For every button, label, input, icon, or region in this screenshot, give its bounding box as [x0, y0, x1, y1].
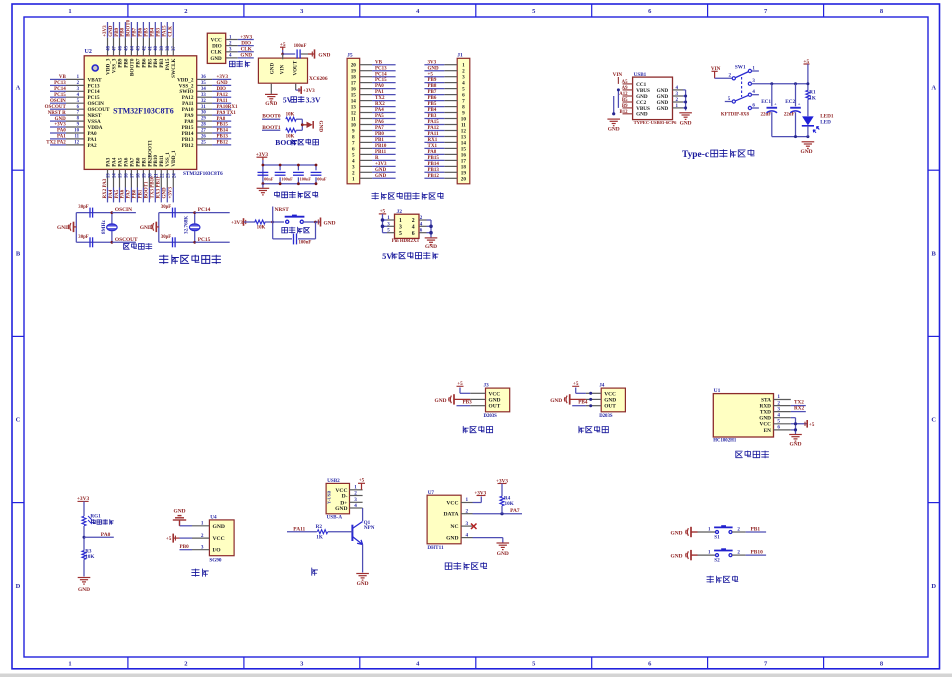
svg-text:4: 4	[466, 532, 469, 538]
svg-text:35: 35	[201, 81, 206, 86]
svg-text:PB3: PB3	[428, 114, 437, 119]
svg-text:PB14: PB14	[428, 162, 440, 167]
svg-text:D-: D-	[342, 494, 348, 500]
svg-text:PA1: PA1	[375, 90, 384, 95]
svg-text:PA1: PA1	[57, 135, 66, 140]
svg-text:11: 11	[74, 135, 79, 140]
svg-text:GND: GND	[55, 117, 67, 122]
svg-text:1: 1	[777, 394, 780, 400]
svg-text:PA6: PA6	[375, 120, 384, 125]
svg-text:32.768K: 32.768K	[184, 216, 190, 234]
svg-text:+3V3: +3V3	[54, 123, 66, 128]
svg-text:+5: +5	[809, 422, 815, 428]
svg-text:GND: GND	[57, 225, 69, 231]
svg-text:PA8: PA8	[428, 150, 437, 155]
svg-text:PA10RX1: PA10RX1	[217, 105, 239, 110]
svg-text:5: 5	[399, 231, 402, 237]
svg-text:TYPEC-USB03-6CP6: TYPEC-USB03-6CP6	[634, 120, 678, 125]
svg-text:2: 2	[184, 661, 187, 668]
svg-text:NPN: NPN	[364, 525, 375, 531]
svg-text:EN: EN	[764, 428, 772, 434]
svg-text:PB15: PB15	[217, 123, 229, 128]
svg-text:10: 10	[74, 129, 79, 134]
svg-text:PA9 TX1: PA9 TX1	[217, 111, 237, 116]
svg-text:2: 2	[184, 8, 187, 15]
svg-text:1: 1	[201, 521, 204, 527]
svg-text:OSCIN: OSCIN	[115, 207, 132, 213]
svg-text:OUT: OUT	[604, 404, 616, 410]
svg-text:PA2: PA2	[88, 143, 98, 149]
svg-text:5: 5	[777, 419, 780, 425]
svg-text:GND: GND	[318, 121, 324, 133]
svg-text:PA12: PA12	[217, 93, 229, 98]
svg-text:PB1: PB1	[751, 526, 761, 532]
svg-text:3V3: 3V3	[428, 60, 437, 65]
svg-text:3: 3	[399, 224, 402, 230]
svg-text:+5: +5	[428, 72, 434, 77]
svg-text:PB13: PB13	[217, 135, 229, 140]
svg-text:CLK: CLK	[241, 47, 252, 53]
svg-text:STM32F103C8T6: STM32F103C8T6	[183, 171, 223, 177]
svg-text:PB1: PB1	[139, 189, 144, 198]
svg-text:OSCIN: OSCIN	[50, 99, 66, 104]
svg-text:NC: NC	[450, 524, 458, 530]
svg-text:A9: A9	[622, 86, 628, 91]
svg-text:XC6206: XC6206	[309, 76, 328, 82]
svg-text:GND: GND	[425, 244, 437, 250]
svg-text:PC15: PC15	[375, 78, 387, 83]
svg-text:45: 45	[124, 46, 129, 51]
svg-text:A: A	[931, 84, 936, 91]
svg-text:DHT11: DHT11	[427, 545, 444, 551]
svg-text:EC2: EC2	[785, 99, 795, 105]
svg-text:30pF: 30pF	[78, 235, 88, 240]
svg-text:GND: GND	[759, 416, 771, 422]
svg-text:TX2: TX2	[794, 400, 804, 406]
svg-text:VCC: VCC	[604, 391, 616, 397]
svg-text:PB12: PB12	[182, 143, 194, 149]
svg-text:GND: GND	[213, 524, 225, 530]
svg-text:10K: 10K	[286, 113, 295, 118]
svg-text:B12: B12	[620, 110, 629, 115]
svg-text:PA11: PA11	[217, 99, 229, 104]
svg-text:3: 3	[777, 406, 780, 412]
svg-text:12: 12	[74, 141, 79, 146]
svg-text:3: 3	[201, 544, 204, 550]
svg-text:GND: GND	[435, 398, 447, 404]
svg-text:NRST R: NRST R	[48, 111, 66, 116]
svg-text:PC14: PC14	[198, 207, 211, 213]
svg-text:+5: +5	[359, 478, 365, 484]
svg-text:PA7: PA7	[127, 189, 132, 198]
svg-text:B5: B5	[622, 98, 628, 103]
svg-text:34: 34	[201, 87, 206, 92]
svg-text:23: 23	[166, 173, 171, 178]
svg-text:STA: STA	[761, 397, 771, 403]
svg-text:GND: GND	[671, 553, 683, 559]
svg-text:GND: GND	[608, 127, 620, 133]
svg-text:30pF: 30pF	[78, 205, 88, 210]
svg-text:J1: J1	[457, 53, 463, 59]
svg-text:VOUT: VOUT	[293, 60, 299, 75]
svg-text:2: 2	[412, 218, 415, 224]
svg-text:46: 46	[118, 46, 123, 51]
svg-text:VIN: VIN	[613, 72, 623, 78]
svg-text:PA8: PA8	[217, 117, 226, 122]
svg-text:RX1: RX1	[428, 138, 438, 143]
svg-text:GND: GND	[550, 398, 562, 404]
svg-text:1: 1	[68, 8, 71, 15]
svg-text:VCC: VCC	[213, 536, 225, 542]
svg-text:LED: LED	[820, 120, 831, 126]
svg-text:PA15: PA15	[428, 120, 440, 125]
svg-text:VBUS: VBUS	[636, 88, 650, 94]
svg-text:48: 48	[106, 46, 111, 51]
svg-text:KFTDIP-8X8: KFTDIP-8X8	[721, 112, 750, 117]
svg-text:31: 31	[201, 105, 206, 110]
svg-text:Type-c: Type-c	[682, 150, 709, 160]
svg-text:U4: U4	[210, 514, 217, 520]
svg-text:PB11: PB11	[375, 150, 387, 155]
svg-text:GND: GND	[174, 509, 186, 515]
svg-text:37: 37	[172, 46, 177, 51]
svg-text:PA11: PA11	[293, 526, 305, 532]
svg-text:1: 1	[68, 661, 71, 668]
svg-text:4: 4	[354, 503, 357, 509]
svg-text:S2: S2	[714, 557, 720, 563]
svg-text:B9: B9	[622, 104, 628, 109]
svg-text:100nF: 100nF	[281, 177, 293, 182]
svg-text:RX2: RX2	[794, 406, 804, 412]
svg-text:R2: R2	[316, 524, 323, 530]
svg-text:GND: GND	[446, 536, 458, 542]
svg-text:20: 20	[461, 176, 467, 182]
svg-text:I/O: I/O	[213, 548, 222, 554]
svg-text:PB3: PB3	[463, 400, 473, 406]
svg-text:GND: GND	[657, 106, 669, 112]
svg-text:RX2: RX2	[375, 102, 385, 107]
svg-text:PC14: PC14	[54, 87, 66, 92]
svg-text:GND: GND	[335, 506, 347, 512]
svg-text:100nF: 100nF	[300, 177, 312, 182]
svg-text:PB7: PB7	[133, 27, 138, 36]
svg-text:+3V3: +3V3	[169, 187, 174, 199]
svg-text:30pF: 30pF	[161, 235, 171, 240]
svg-text:CLK: CLK	[169, 26, 174, 37]
svg-text:3: 3	[466, 521, 469, 527]
svg-text:27: 27	[201, 129, 206, 134]
svg-text:29: 29	[201, 117, 206, 122]
svg-text:PB4: PB4	[151, 27, 156, 36]
svg-text:A5: A5	[622, 80, 628, 85]
svg-text:PB4: PB4	[578, 400, 588, 406]
svg-text:PB9: PB9	[115, 27, 120, 36]
svg-text:PA7: PA7	[375, 126, 384, 131]
svg-text:+3V3: +3V3	[375, 162, 387, 167]
svg-text:GND: GND	[357, 581, 369, 587]
svg-text:44: 44	[130, 46, 135, 51]
svg-text:+3V3: +3V3	[240, 34, 252, 40]
svg-text:41: 41	[148, 46, 153, 51]
svg-text:VCC: VCC	[446, 501, 458, 507]
svg-text:+: +	[774, 102, 777, 107]
svg-text:GND: GND	[163, 187, 168, 199]
svg-text:100nF: 100nF	[294, 44, 307, 49]
svg-text:PA0: PA0	[57, 129, 66, 134]
svg-text:PB12: PB12	[217, 141, 229, 146]
svg-text:C: C	[931, 417, 936, 424]
svg-text:S1: S1	[714, 534, 720, 540]
svg-text:2: 2	[201, 533, 204, 539]
svg-text:100nF: 100nF	[299, 241, 312, 246]
svg-text:DIO: DIO	[217, 87, 227, 92]
svg-text:TX1: TX1	[428, 144, 438, 149]
svg-text:6: 6	[412, 231, 415, 237]
svg-text:PB15: PB15	[428, 156, 440, 161]
svg-text:2: 2	[466, 508, 469, 514]
svg-text:U2: U2	[85, 49, 92, 55]
svg-text:OSCOUT: OSCOUT	[45, 105, 67, 110]
svg-text:PA12: PA12	[428, 126, 440, 131]
svg-text:Y-USB: Y-USB	[327, 491, 332, 504]
svg-text:VCC: VCC	[760, 422, 772, 428]
svg-text:1: 1	[399, 218, 402, 224]
svg-text:PB0: PB0	[133, 189, 138, 198]
svg-text:+5: +5	[166, 536, 172, 542]
svg-text:PB10: PB10	[375, 144, 387, 149]
svg-text:16: 16	[125, 173, 130, 178]
svg-text:GND: GND	[210, 56, 222, 62]
svg-text:PA4: PA4	[109, 189, 114, 198]
svg-text:GND: GND	[324, 220, 336, 226]
svg-text:VCC: VCC	[489, 391, 501, 397]
svg-text:25: 25	[201, 141, 206, 146]
svg-text:EC1: EC1	[761, 99, 771, 105]
svg-text:GND: GND	[140, 225, 152, 231]
svg-text:PB6: PB6	[428, 96, 437, 101]
svg-text:4: 4	[412, 224, 415, 230]
svg-text:PB0: PB0	[180, 544, 190, 550]
svg-text:40: 40	[154, 46, 159, 51]
svg-text:STM32F103C8T6: STM32F103C8T6	[113, 106, 174, 115]
svg-text:RG1: RG1	[90, 514, 101, 520]
svg-text:PC15: PC15	[54, 93, 66, 98]
svg-text:J5: J5	[347, 53, 353, 59]
svg-text:PB0: PB0	[375, 132, 384, 137]
svg-text:NRST: NRST	[275, 207, 290, 213]
svg-text:00uF: 00uF	[317, 177, 327, 182]
svg-text:22uF: 22uF	[761, 112, 772, 117]
svg-text:1: 1	[466, 497, 469, 503]
svg-text:Pin HDR2X3: Pin HDR2X3	[392, 239, 420, 244]
svg-text:SWCLK: SWCLK	[171, 59, 177, 78]
svg-text:17: 17	[131, 173, 136, 178]
svg-text:10K: 10K	[505, 501, 514, 507]
svg-text:+3V3: +3V3	[231, 220, 243, 226]
svg-text:PC14: PC14	[375, 72, 387, 77]
svg-text:30pF: 30pF	[161, 205, 171, 210]
svg-text:PA6: PA6	[121, 189, 126, 198]
svg-text:PB7: PB7	[428, 90, 437, 95]
svg-text:D203S: D203S	[484, 414, 498, 419]
svg-text:RX2 PA3: RX2 PA3	[103, 178, 108, 198]
svg-text:10K: 10K	[85, 554, 94, 560]
svg-text:BOOT1: BOOT1	[145, 181, 150, 198]
svg-text:4: 4	[777, 412, 780, 418]
svg-text:PA0: PA0	[375, 84, 384, 89]
svg-text:GND: GND	[657, 88, 669, 94]
svg-text:CLK: CLK	[211, 50, 222, 56]
svg-text:22uF: 22uF	[784, 112, 795, 117]
svg-text:RX3 PB11: RX3 PB11	[157, 176, 162, 199]
svg-text:SW1: SW1	[735, 64, 746, 70]
svg-text:PC15: PC15	[198, 237, 211, 243]
svg-text:OSCOUT: OSCOUT	[115, 237, 138, 243]
svg-text:R: R	[375, 156, 379, 161]
svg-text:TX3 PB10: TX3 PB10	[151, 176, 156, 199]
svg-text:B: B	[16, 251, 21, 258]
svg-text:38: 38	[166, 46, 171, 51]
svg-text:PB8: PB8	[121, 27, 126, 36]
svg-text:6: 6	[777, 425, 780, 431]
svg-text:PB1: PB1	[375, 138, 384, 143]
svg-text:GND: GND	[497, 551, 509, 557]
svg-text:D203S: D203S	[599, 414, 613, 419]
svg-text:47: 47	[112, 46, 117, 51]
svg-text:VCC: VCC	[211, 37, 222, 43]
svg-text:PB4: PB4	[428, 108, 437, 113]
svg-text:GND: GND	[636, 112, 648, 118]
svg-text:8MHz: 8MHz	[101, 219, 107, 234]
svg-text:SG90: SG90	[209, 557, 222, 563]
svg-text:HC1802H1: HC1802H1	[713, 438, 737, 443]
svg-text:42: 42	[142, 46, 147, 51]
svg-text:13: 13	[107, 173, 112, 178]
svg-text:GND: GND	[109, 25, 114, 37]
svg-text:USB2: USB2	[327, 478, 340, 484]
svg-text:PB6: PB6	[139, 27, 144, 36]
svg-text:GND: GND	[428, 66, 440, 71]
svg-text:GND: GND	[318, 52, 330, 58]
svg-text:PB8: PB8	[428, 84, 437, 89]
svg-text:14: 14	[113, 173, 118, 178]
svg-text:VB: VB	[59, 75, 67, 80]
svg-text:PB9: PB9	[428, 78, 437, 83]
svg-text:PC13: PC13	[54, 81, 66, 86]
svg-text:GND: GND	[680, 121, 692, 127]
svg-text:PA11: PA11	[428, 132, 440, 137]
svg-text:GND: GND	[78, 587, 90, 593]
svg-text:1: 1	[352, 176, 355, 182]
svg-text:PB12: PB12	[428, 174, 440, 179]
svg-text:+3V3: +3V3	[103, 25, 108, 37]
svg-text:DATA: DATA	[443, 512, 458, 518]
svg-text:BOOT: BOOT	[275, 138, 297, 147]
svg-text:U7: U7	[428, 490, 435, 496]
svg-text:24: 24	[172, 173, 177, 178]
svg-text:PA7: PA7	[510, 508, 520, 514]
svg-text:PB13: PB13	[428, 168, 440, 173]
svg-text:1K: 1K	[316, 535, 323, 541]
svg-text:U1: U1	[714, 388, 721, 394]
svg-text:PA4: PA4	[375, 108, 384, 113]
svg-text:TX2 PA2: TX2 PA2	[46, 141, 66, 146]
svg-text:19: 19	[143, 173, 148, 178]
svg-text:GND: GND	[269, 63, 275, 75]
svg-text:3.3V: 3.3V	[306, 95, 321, 104]
svg-text:A: A	[16, 84, 21, 91]
svg-text:39: 39	[160, 46, 165, 51]
svg-text:J4: J4	[599, 383, 605, 389]
svg-text:PA15: PA15	[163, 25, 168, 37]
svg-text:TX2: TX2	[375, 96, 385, 101]
svg-text:32: 32	[201, 99, 206, 104]
svg-text:GND: GND	[265, 101, 277, 107]
svg-text:1K: 1K	[809, 95, 816, 101]
svg-text:GND: GND	[790, 442, 802, 448]
svg-text:PB5: PB5	[428, 102, 437, 107]
svg-text:PA5: PA5	[115, 189, 120, 198]
svg-text:D: D	[931, 583, 936, 590]
svg-text:TXD: TXD	[760, 410, 771, 416]
svg-text:A12: A12	[619, 92, 628, 97]
svg-text:D: D	[16, 583, 21, 590]
svg-text:GND: GND	[375, 174, 387, 179]
svg-text:15: 15	[119, 173, 124, 178]
svg-text:GND: GND	[375, 168, 387, 173]
svg-text:GND: GND	[604, 397, 616, 403]
svg-text:+3V3: +3V3	[303, 88, 315, 94]
svg-text:GND: GND	[801, 149, 813, 155]
svg-text:28: 28	[201, 123, 206, 128]
svg-text:BOOT0: BOOT0	[127, 19, 132, 36]
svg-text:PA0: PA0	[101, 532, 111, 538]
svg-text:PC13: PC13	[375, 66, 387, 71]
svg-text:GND: GND	[217, 81, 229, 86]
svg-text:LED1: LED1	[820, 113, 834, 119]
svg-text:J3: J3	[484, 383, 490, 389]
svg-text:OUT: OUT	[489, 404, 501, 410]
svg-text:43: 43	[136, 46, 141, 51]
svg-text:PB10: PB10	[751, 550, 764, 556]
svg-text:30: 30	[201, 111, 206, 116]
svg-text:VDD_1: VDD_1	[171, 150, 177, 167]
svg-text:2: 2	[354, 490, 357, 496]
svg-text:36: 36	[201, 75, 206, 80]
svg-text:5V: 5V	[382, 252, 392, 261]
svg-text:J2: J2	[397, 209, 403, 215]
svg-text:10K: 10K	[257, 226, 266, 231]
svg-text:18: 18	[137, 173, 142, 178]
svg-text:GND: GND	[671, 530, 683, 536]
svg-text:C: C	[16, 417, 21, 424]
svg-text:VIN: VIN	[280, 65, 286, 75]
svg-text:USB1: USB1	[634, 72, 647, 78]
svg-text:+3V3: +3V3	[217, 75, 229, 80]
svg-text:B: B	[932, 251, 937, 258]
svg-text:DIO: DIO	[241, 40, 251, 46]
svg-text:USB-A: USB-A	[327, 515, 343, 521]
svg-text:VB: VB	[375, 60, 383, 65]
svg-text:PB5: PB5	[145, 27, 150, 36]
svg-text:DIO: DIO	[212, 44, 222, 50]
svg-text:PB14: PB14	[217, 129, 229, 134]
svg-text:PA5: PA5	[375, 114, 384, 119]
svg-text:GND: GND	[489, 397, 501, 403]
svg-text:00nF: 00nF	[264, 177, 274, 182]
svg-text:+: +	[798, 102, 801, 107]
svg-text:26: 26	[201, 135, 206, 140]
